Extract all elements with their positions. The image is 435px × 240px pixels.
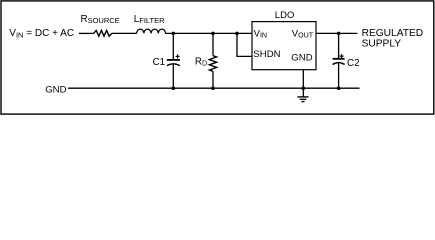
capacitor C2	[333, 54, 345, 64]
svg-text:LDO: LDO	[275, 10, 295, 21]
svg-text:SHDN: SHDN	[253, 49, 280, 60]
wire VOUT to output	[316, 32, 357, 34]
capacitor C1	[167, 54, 180, 65]
svg-text:GND: GND	[291, 53, 312, 64]
wire C2 lower lead	[338, 63, 340, 89]
wire RD lower lead	[212, 71, 214, 88]
wire from VIN label to R_SOURCE	[79, 32, 94, 34]
node junction ground symbol	[302, 86, 306, 90]
node junction C2 top	[337, 32, 341, 36]
wire RD upper lead	[212, 33, 214, 55]
svg-text:LFILTER: LFILTER	[134, 14, 165, 25]
svg-text:RD: RD	[195, 57, 207, 68]
svg-text:C2: C2	[347, 58, 360, 69]
svg-text:VIN = DC + AC: VIN = DC + AC	[9, 28, 74, 39]
node junction C1 top	[172, 32, 176, 36]
resistor RD	[209, 56, 216, 72]
inductor LFILTER	[137, 29, 166, 33]
node junction RD bottom	[211, 86, 215, 90]
wire C1 upper lead	[172, 33, 174, 59]
wire C2 upper lead	[338, 33, 340, 58]
wire LFILTER to LDO VIN pin	[166, 32, 253, 34]
IC U1 LDO regulator box	[252, 22, 316, 70]
wire LDO GND pin lead	[302, 70, 304, 89]
wire SHDN branch	[237, 33, 252, 56]
ground	[298, 88, 309, 101]
wire GND rail	[68, 87, 360, 89]
wire RSOURCE to LFILTER	[112, 32, 137, 34]
svg-text:SUPPLY: SUPPLY	[362, 38, 402, 49]
node junction C2 bottom	[337, 86, 341, 90]
node junction RD top	[211, 32, 215, 36]
svg-text:RSOURCE: RSOURCE	[81, 14, 120, 25]
node junction SHDN branch	[235, 32, 239, 36]
resistor RSOURCE	[94, 30, 112, 36]
svg-text:C1: C1	[153, 57, 166, 68]
svg-text:GND: GND	[45, 85, 66, 96]
node junction C1 bottom	[172, 86, 176, 90]
wire C1 lower lead	[172, 64, 174, 88]
